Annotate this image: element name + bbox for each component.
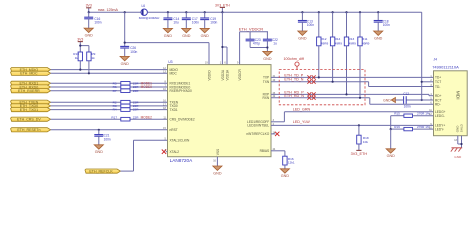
svg-text:max. 125mA: max. 125mA: [98, 8, 119, 12]
svg-text:C23: C23: [255, 38, 261, 42]
svg-text:VSS: VSS: [216, 149, 220, 155]
wire ETH_TXD0: [51, 104, 168, 108]
power flag 3V3_ETH pullup: [351, 150, 368, 156]
svg-text:GND: GND: [456, 125, 460, 133]
no-connect nINT/REFCLKO: [271, 132, 279, 136]
svg-text:L6: L6: [142, 4, 146, 8]
wire rail after L6: [147, 10, 421, 14]
net label ETH_RD_P: [284, 90, 304, 94]
svg-text:TD+: TD+: [435, 76, 441, 80]
ground: [213, 166, 222, 175]
svg-text:49R9: 49R9: [335, 41, 343, 45]
wire RBIAS: [271, 151, 285, 156]
wire ETH_TD_N: [271, 81, 434, 87]
svg-text:C14: C14: [173, 17, 179, 21]
capacitor C18: [374, 12, 390, 31]
wire ETH_REFCLK: [121, 140, 168, 171]
svg-text:10u: 10u: [173, 21, 179, 25]
svg-text:100n: 100n: [307, 23, 314, 27]
svg-text:16: 16: [213, 160, 216, 163]
net label ETH_TD_P: [284, 73, 303, 77]
ground: [386, 149, 395, 158]
svg-text:LED2/nINTSEL: LED2/nINTSEL: [247, 124, 269, 128]
svg-text:ETH_TXD1: ETH_TXD1: [20, 108, 38, 112]
capacitor C26: [120, 46, 137, 56]
port ETH_MDC: [11, 71, 51, 75]
svg-text:LEDG-: LEDG-: [435, 114, 445, 118]
connector J4 RJ45 magjack: [429, 58, 467, 136]
svg-text:3V3: 3V3: [86, 4, 92, 8]
port ETH_RESETn: [11, 128, 51, 132]
svg-text:6: 6: [224, 61, 226, 64]
svg-text:19: 19: [205, 61, 208, 64]
svg-text:22R: 22R: [133, 81, 139, 85]
svg-text:MODE0: MODE0: [141, 85, 153, 89]
svg-text:C17: C17: [192, 17, 198, 21]
net label ETH_TD_N: [284, 78, 303, 82]
svg-text:GND: GND: [164, 34, 173, 38]
wire center-tap feed: [420, 12, 424, 100]
chassis ground: [451, 148, 462, 159]
svg-text:XTAL1/CLKIN: XTAL1/CLKIN: [170, 139, 190, 143]
annotation 100ohm_diff: [284, 57, 305, 70]
svg-text:270R 1%: 270R 1%: [417, 125, 430, 129]
svg-text:RCT: RCT: [435, 98, 442, 102]
capacitor C19: [200, 12, 217, 28]
resistor R7 22R: [113, 89, 140, 93]
svg-text:R4: R4: [113, 108, 117, 112]
wire RCT: [406, 98, 433, 102]
capacitor C17: [182, 12, 199, 28]
port ETH_MDIO: [11, 68, 51, 72]
svg-text:TCT: TCT: [435, 80, 441, 84]
resistor R3 22R: [113, 104, 140, 108]
wire ETH_RXD1: [51, 81, 168, 85]
svg-text:100n: 100n: [404, 104, 411, 108]
wire shield ground: [454, 136, 462, 148]
svg-text:GND: GND: [387, 154, 396, 158]
svg-text:LED_YLW: LED_YLW: [293, 120, 310, 124]
svg-text:MDC: MDC: [170, 72, 178, 76]
svg-text:100ohm_diff: 100ohm_diff: [284, 57, 305, 61]
net label LED_GRN: [293, 108, 311, 112]
svg-text:3V3_ETH: 3V3_ETH: [215, 3, 230, 7]
wire ETH_MDIO: [51, 69, 168, 71]
svg-text:R18: R18: [363, 136, 369, 140]
svg-text:22R: 22R: [133, 104, 139, 108]
svg-text:49R9: 49R9: [321, 41, 329, 45]
junction R13: [345, 11, 347, 13]
svg-text:1k: 1k: [75, 56, 79, 60]
svg-text:ETH_RESETn: ETH_RESETn: [17, 128, 40, 132]
svg-text:LAN8720A: LAN8720A: [170, 158, 194, 163]
svg-text:22R: 22R: [133, 89, 139, 93]
svg-text:C22: C22: [272, 38, 278, 42]
junction VDD branch: [221, 11, 223, 13]
svg-text:22R: 22R: [133, 115, 139, 119]
net label ETH_VDDCR: [239, 27, 264, 32]
resistor R9 1k: [87, 52, 96, 73]
svg-text:ETH_RXERR: ETH_RXERR: [18, 89, 40, 93]
net label LED_YLW: [293, 120, 310, 124]
junction C18: [377, 11, 379, 13]
resistor R14 49R9: [330, 12, 342, 82]
junction R12: [318, 11, 320, 13]
svg-text:100n: 100n: [383, 23, 390, 27]
svg-text:1: 1: [220, 61, 222, 64]
svg-text:VDD2A: VDD2A: [221, 69, 225, 81]
svg-text:MODE2: MODE2: [141, 115, 153, 119]
svg-text:J4: J4: [433, 58, 437, 62]
svg-text:ETH_RD_N: ETH_RD_N: [284, 94, 304, 98]
svg-text:R14: R14: [335, 37, 341, 41]
svg-text:270R 1%: 270R 1%: [417, 112, 430, 116]
power flag 3V3_ETH: [215, 3, 230, 12]
svg-text:RD+: RD+: [435, 94, 442, 98]
port ETH_RXERR: [11, 89, 51, 93]
svg-text:MDIO: MDIO: [170, 68, 179, 72]
svg-text:RXN: RXN: [262, 96, 269, 100]
svg-text:LEDY+: LEDY+: [435, 124, 445, 128]
svg-text:100n: 100n: [210, 21, 217, 25]
ground: [200, 28, 209, 37]
svg-text:49R9: 49R9: [362, 41, 370, 45]
svg-text:TXP: TXP: [263, 76, 269, 80]
ground: [182, 28, 191, 37]
resistor R17 22R: [111, 115, 152, 121]
svg-text:100n: 100n: [192, 21, 199, 25]
wire ETH_RXERR: [51, 89, 168, 93]
svg-text:LEDY-: LEDY-: [435, 127, 444, 131]
svg-text:GND: GND: [374, 36, 383, 40]
svg-text:GND: GND: [298, 36, 307, 40]
svg-text:22R: 22R: [133, 85, 139, 89]
wire ETH_RD_N: [271, 97, 434, 105]
svg-text:100n: 100n: [94, 21, 101, 25]
resistor R15 270R: [394, 112, 430, 118]
svg-text:LED_GRN: LED_GRN: [293, 108, 311, 112]
svg-text:R5: R5: [113, 81, 117, 85]
resistor R6 22R: [113, 85, 153, 89]
ground: [263, 51, 272, 60]
svg-text:SHLD: SHLD: [460, 123, 464, 132]
svg-text:RXD0/MODE0: RXD0/MODE0: [170, 85, 191, 89]
junction at 3V3 stem: [88, 11, 90, 13]
svg-text:U3: U3: [168, 60, 172, 64]
svg-text:TXD1: TXD1: [170, 108, 178, 112]
junction C17: [185, 11, 187, 13]
capacitor C22: [263, 32, 278, 48]
svg-text:XTAL2: XTAL2: [170, 150, 180, 154]
svg-text:GND: GND: [263, 57, 272, 61]
svg-text:9: 9: [237, 61, 239, 64]
differential pair marker TD: [307, 75, 315, 84]
capacitor C16: [84, 12, 102, 28]
ground: [374, 31, 383, 40]
annotation max. 125mA: [98, 8, 119, 12]
svg-text:VDDCR: VDDCR: [238, 68, 242, 80]
wire TCT stub: [421, 81, 434, 83]
svg-text:C21: C21: [104, 134, 110, 138]
svg-text:470p: 470p: [253, 42, 260, 46]
port ETH_RXD1: [11, 81, 51, 85]
svg-text:ETH_VDDCR: ETH_VDDCR: [239, 27, 264, 32]
svg-text:RXER/PHYAD0: RXER/PHYAD0: [170, 89, 192, 93]
svg-text:10k: 10k: [363, 140, 368, 144]
svg-text:GND: GND: [201, 34, 210, 38]
svg-text:GND: GND: [454, 155, 462, 159]
svg-text:R11: R11: [362, 37, 368, 41]
svg-text:TXD0: TXD0: [170, 104, 178, 108]
wire ETH_VDDCR: [240, 32, 268, 65]
svg-text:R2: R2: [113, 100, 117, 104]
wire VDDIO branch: [124, 12, 209, 64]
capacitor C14: [163, 12, 179, 28]
svg-text:ETH_CRS_DV: ETH_CRS_DV: [17, 118, 41, 122]
resistor R18 10k: [357, 125, 369, 150]
svg-text:GND: GND: [281, 174, 290, 178]
wire ETH_CRS_DV: [51, 117, 168, 121]
resistor R13 49R9: [344, 12, 356, 94]
svg-text:R7: R7: [113, 89, 117, 93]
power flag 3V3: [86, 4, 92, 13]
svg-text:100n: 100n: [104, 137, 111, 141]
resistor R10 1k: [73, 52, 82, 70]
svg-text:1u: 1u: [273, 42, 277, 46]
svg-text:TD-: TD-: [435, 85, 440, 89]
port ETH_RXD0: [11, 85, 51, 89]
wire ETH_RD_P: [271, 93, 434, 95]
svg-text:R10: R10: [73, 52, 79, 56]
wire LEDG- return: [391, 116, 434, 129]
ground: [94, 145, 103, 154]
junction R11: [359, 11, 361, 13]
wire cap bottoms: [250, 46, 268, 51]
differential pair marker RD: [307, 92, 315, 100]
wire ETH_MDC: [51, 72, 168, 74]
svg-text:TXN: TXN: [263, 80, 270, 84]
svg-text:3V3_ETH: 3V3_ETH: [351, 152, 368, 156]
svg-text:49R9: 49R9: [349, 41, 357, 45]
svg-text:ETH_TD_N: ETH_TD_N: [284, 78, 303, 82]
ground: [298, 31, 307, 40]
wire ETH_RXD0: [51, 85, 168, 89]
ground: [383, 98, 403, 103]
svg-text:GND: GND: [121, 62, 130, 66]
capacitor C23: [246, 32, 261, 48]
wire VSS: [215, 157, 219, 166]
port ETH_CRS_DV: [11, 117, 51, 121]
svg-text:74990112110A: 74990112110A: [432, 65, 459, 70]
svg-text:nINT/REFCLKO: nINT/REFCLKO: [246, 132, 269, 136]
junction C14: [167, 11, 169, 13]
svg-text:22R: 22R: [133, 108, 139, 112]
resistor R16 12k1: [283, 156, 295, 169]
wire LED_YLW: [271, 124, 434, 126]
svg-text:R19: R19: [394, 125, 400, 129]
port ETH_TXEN: [11, 100, 51, 104]
ground: [280, 169, 289, 178]
svg-text:LEDG+: LEDG+: [435, 110, 446, 114]
svg-text:C16: C16: [94, 17, 100, 21]
svg-text:600R@100MHz: 600R@100MHz: [139, 16, 160, 20]
no-connect XTAL2: [162, 150, 168, 154]
svg-text:VDDIO: VDDIO: [208, 70, 212, 81]
svg-text:RD-: RD-: [435, 103, 441, 107]
svg-text:R15: R15: [394, 112, 400, 116]
svg-text:MODE1: MODE1: [141, 81, 153, 85]
svg-text:GND: GND: [383, 98, 391, 102]
ground: [120, 56, 129, 65]
resistor R5 22R: [113, 81, 153, 85]
wire ETH_TD_P: [271, 76, 434, 78]
resistor R19 270R: [394, 125, 430, 131]
svg-text:22R: 22R: [133, 100, 139, 104]
junction C13: [301, 11, 303, 13]
junction C19: [204, 11, 206, 13]
svg-text:ETH_TD_P: ETH_TD_P: [284, 73, 303, 77]
junction VDDIO branch: [124, 11, 126, 13]
svg-text:TXEN: TXEN: [170, 100, 179, 104]
resistor R2 22R: [113, 100, 140, 104]
ground: [84, 28, 93, 37]
svg-text:C18: C18: [383, 19, 389, 23]
junction R14: [332, 11, 334, 13]
svg-text:GND: GND: [213, 171, 222, 175]
wire VDD1A VDD2A feed: [221, 12, 227, 64]
svg-text:R16: R16: [288, 157, 294, 161]
svg-text:ETH_MDC: ETH_MDC: [20, 72, 38, 76]
svg-text:R17: R17: [111, 115, 117, 119]
capacitor C12: [403, 92, 411, 109]
power flag 3V3 pullups: [77, 38, 83, 46]
port ETH_TXD1: [11, 108, 51, 112]
svg-text:100n: 100n: [130, 50, 137, 54]
svg-text:R6: R6: [113, 85, 117, 89]
svg-text:GND: GND: [95, 150, 104, 154]
svg-text:3V3: 3V3: [77, 38, 83, 42]
capacitor C21: [94, 130, 111, 145]
svg-text:nRST: nRST: [170, 128, 178, 132]
svg-text:R13: R13: [349, 37, 355, 41]
svg-text:1k: 1k: [91, 56, 95, 60]
wire ETH_TXD1: [51, 108, 168, 112]
wire ETH_RESETn: [51, 129, 168, 131]
svg-text:13: 13: [454, 139, 457, 142]
ferrite bead L6: [139, 4, 160, 20]
svg-text:R12: R12: [321, 37, 327, 41]
svg-text:12k1: 12k1: [288, 161, 295, 165]
wire LED_GRN: [271, 112, 434, 122]
svg-text:RBIAS: RBIAS: [260, 149, 270, 153]
wire LEDY- return: [390, 128, 434, 149]
svg-text:R3: R3: [113, 104, 117, 108]
svg-text:CRS_DV/MODE2: CRS_DV/MODE2: [170, 117, 195, 121]
svg-text:GND: GND: [182, 34, 191, 38]
svg-text:MDI: MDI: [455, 91, 461, 100]
resistor R11 49R9: [358, 12, 370, 98]
svg-text:RXD1/MODE1: RXD1/MODE1: [170, 82, 191, 86]
svg-text:VDD1A: VDD1A: [226, 69, 230, 81]
port ETH_REFCLK: [85, 169, 121, 173]
wire pullup top: [79, 45, 89, 53]
svg-text:ETH_REFCLK: ETH_REFCLK: [89, 169, 113, 173]
svg-text:R9: R9: [91, 52, 95, 56]
svg-text:C12: C12: [403, 92, 409, 96]
wire 3V3 rail: [89, 10, 141, 14]
svg-text:C19: C19: [210, 17, 216, 21]
resistor R4 22R: [113, 108, 140, 112]
net label ETH_RD_N: [284, 94, 304, 98]
port ETH_TXD0: [11, 104, 51, 108]
op-amp U3 LAN8720A PHY: [163, 60, 276, 163]
svg-text:GND: GND: [85, 34, 94, 38]
junction RCT: [421, 99, 423, 101]
wire ETH_TXEN: [51, 100, 168, 104]
differential routing box: [279, 70, 365, 105]
svg-text:C26: C26: [130, 46, 136, 50]
capacitor C13: [298, 12, 314, 31]
svg-text:C13: C13: [307, 19, 313, 23]
resistor R12 49R9: [317, 12, 329, 77]
ground: [163, 28, 172, 37]
